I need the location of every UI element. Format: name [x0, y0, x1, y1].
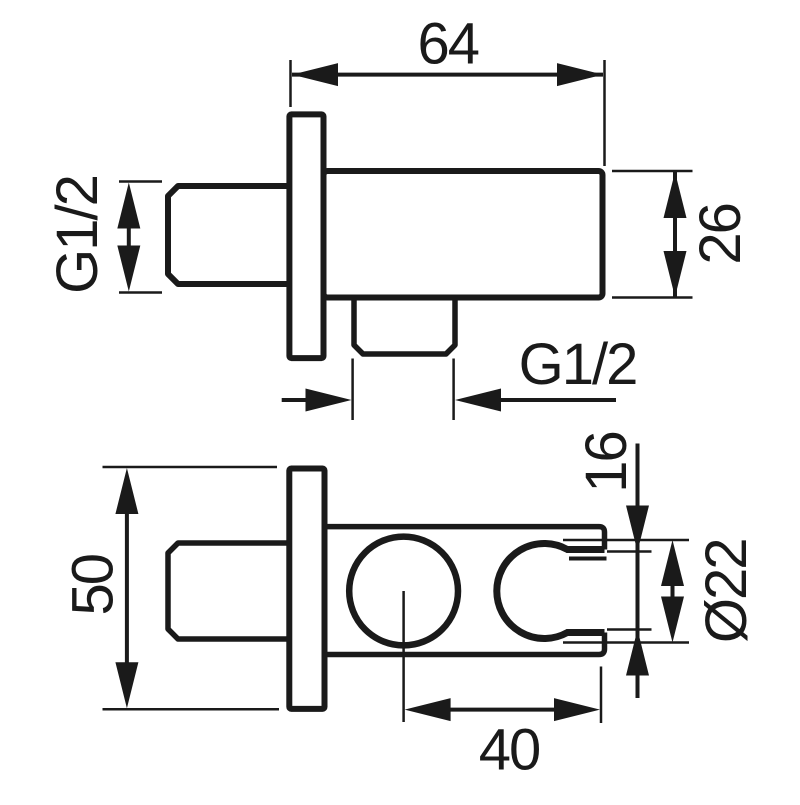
dim G1/2 inlet: bottom extension line — [119, 291, 162, 294]
dim 16: lower extension line — [607, 628, 652, 631]
dim 64: left arrowhead — [292, 63, 338, 86]
holder lip bottom line / dim Ø22 bottom extension — [563, 641, 689, 644]
dim 50: up arrowhead — [115, 468, 138, 514]
dim 64: right arrowhead — [557, 63, 603, 86]
bottom outlet spigot G1/2 (side view) — [354, 296, 455, 354]
dim 40: right extension line — [600, 667, 603, 724]
inlet nipple G1/2 (front view), chamfered — [168, 543, 300, 639]
dim 16: dimension line — [636, 444, 640, 699]
dim 50: top extension line — [103, 466, 278, 469]
shower holder C-clip with jaw lines — [497, 544, 605, 639]
svg-text:G1/2: G1/2 — [519, 332, 637, 397]
dim 16: down arrowhead (outside above) — [626, 506, 649, 552]
dim 40: right arrowhead — [554, 698, 600, 721]
dim G1/2 inlet: top extension line — [119, 180, 162, 183]
dim 26: up arrowhead — [664, 172, 687, 218]
dim 50: bottom extension line — [103, 708, 280, 711]
top jaw inner slot line — [569, 557, 607, 561]
dim 64: dimension line — [292, 73, 603, 77]
dim G1/2 outlet: left shaft — [282, 398, 307, 402]
dim Ø22: down arrowhead — [661, 597, 684, 643]
dim Ø22: up arrowhead — [661, 540, 684, 586]
dim G1/2 inlet: shaft — [127, 226, 131, 248]
dim 50: shaft — [125, 512, 129, 664]
main body rectangle (side view) — [324, 171, 603, 298]
dim G1/2 outlet: right extension line — [452, 359, 455, 421]
svg-text:16: 16 — [574, 432, 639, 493]
svg-text:G1/2: G1/2 — [45, 176, 110, 294]
dim 64: right extension line — [603, 60, 606, 166]
body bottom edge with right stub (front view) — [326, 633, 605, 655]
dim 40: shaft — [449, 708, 554, 712]
inlet nipple G1/2 (side view), chamfered — [168, 186, 300, 284]
svg-text:40: 40 — [479, 718, 540, 783]
dim 26: dimension line — [673, 172, 677, 297]
dim G1/2 inlet: down arrowhead — [117, 246, 140, 292]
holder lip top line / dim Ø22 top extension — [563, 539, 689, 542]
dim 26: bottom extension line — [612, 296, 693, 299]
wall plate (front view) — [289, 469, 324, 709]
dim 40: left arrowhead — [405, 698, 451, 721]
dim 16: up arrowhead (outside below) — [626, 630, 649, 676]
dim G1/2 outlet: left-pointing arrowhead — [455, 389, 501, 412]
outlet centerline / dim 40 left extension — [402, 591, 405, 722]
dim G1/2 inlet: up arrowhead — [117, 183, 140, 229]
dim 50: down arrowhead — [115, 662, 138, 708]
wall plate (side view) extension dim 64: left extension line — [289, 60, 292, 107]
wall plate (side view) — [289, 114, 323, 358]
svg-text:Ø22: Ø22 — [694, 539, 759, 643]
dim G1/2 outlet: right shaft (leader) — [501, 398, 616, 402]
svg-text:50: 50 — [61, 555, 126, 616]
svg-text:64: 64 — [418, 12, 479, 77]
dim 26: down arrowhead — [664, 251, 687, 297]
outlet circle (front view) — [349, 537, 458, 646]
dim G1/2 outlet: right-pointing arrowhead — [306, 389, 352, 412]
dim 26: top extension line — [612, 170, 693, 173]
svg-text:26: 26 — [688, 204, 753, 265]
dim Ø22: shaft — [671, 584, 675, 599]
dim G1/2 outlet: left extension line — [351, 359, 354, 421]
dim 16: upper extension line — [607, 550, 652, 553]
body top edge with right stub (front view) — [326, 527, 605, 550]
